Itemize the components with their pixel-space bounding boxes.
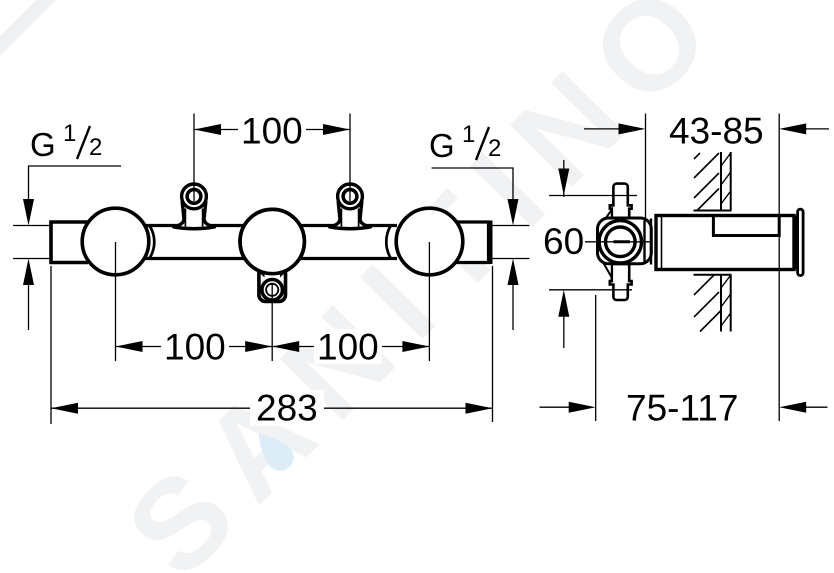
wall upper bbox=[694, 152, 732, 211]
mounting plate bbox=[643, 221, 645, 264]
inner sleeve step bbox=[713, 216, 779, 236]
centerline circle1 down bbox=[115, 242, 117, 361]
G1/2 leader left bbox=[29, 166, 122, 199]
svg-text:43-85: 43-85 bbox=[669, 111, 764, 152]
hatch between wall lines bbox=[721, 153, 731, 204]
hatch 45deg bbox=[694, 153, 719, 211]
svg-text:2: 2 bbox=[488, 135, 501, 162]
svg-text:1: 1 bbox=[462, 121, 475, 148]
centerline bottom ear down bbox=[271, 284, 273, 361]
centerline ear2 up bbox=[349, 114, 351, 202]
283 extension lines bbox=[50, 266, 52, 424]
svg-text:1: 1 bbox=[63, 120, 76, 147]
ring inner bbox=[606, 227, 636, 257]
ring outer bbox=[599, 221, 641, 263]
end flange bbox=[798, 209, 804, 275]
G1/2 left dim arrows bbox=[23, 199, 34, 285]
centerline horizontal bbox=[585, 241, 650, 243]
wings bbox=[605, 210, 612, 221]
dim 75-117 bbox=[540, 295, 828, 429]
svg-text:283: 283 bbox=[256, 388, 318, 429]
wall lower bbox=[694, 275, 732, 332]
right coupling rect bbox=[455, 221, 490, 265]
svg-text:2: 2 bbox=[89, 134, 102, 161]
60 extension over arms bbox=[549, 195, 637, 197]
bottom ear under circle 2 bbox=[258, 271, 288, 302]
body tube bar bbox=[85, 226, 489, 259]
svg-text:100: 100 bbox=[317, 327, 379, 368]
dimension 100 bottom left bbox=[116, 327, 273, 368]
svg-text:SANITINO: SANITINO bbox=[100, 0, 751, 573]
socket arc left of circle 3 bbox=[386, 226, 391, 259]
top ear 2 bbox=[330, 184, 371, 229]
top ear 1 bbox=[174, 184, 215, 229]
watermark blue drop bbox=[259, 434, 294, 471]
center dash bbox=[614, 240, 631, 243]
cylinder end heavy line bbox=[794, 216, 798, 270]
valve circle 1 bbox=[82, 208, 149, 275]
valve circle 3 bbox=[396, 208, 463, 275]
G1/2 label right bbox=[429, 121, 501, 164]
G1/2 right dim arrows bbox=[508, 199, 519, 285]
body rounded square bbox=[598, 218, 652, 264]
bottom arm bbox=[610, 264, 632, 300]
watermark SANITINO bbox=[100, 0, 751, 573]
dimension 100 bottom right bbox=[272, 327, 429, 368]
centerline ear1 up bbox=[193, 114, 195, 202]
G1/2 right extension lines bbox=[492, 225, 530, 227]
valve circle 2 redraw over ear top bbox=[240, 209, 304, 273]
left coupling rect bbox=[51, 222, 88, 263]
svg-text:100: 100 bbox=[164, 327, 226, 368]
svg-text:G: G bbox=[30, 126, 56, 163]
svg-text:60: 60 bbox=[543, 221, 584, 262]
dim 43-85 bbox=[584, 111, 829, 219]
long extension line right bbox=[778, 114, 780, 422]
svg-text:100: 100 bbox=[241, 111, 303, 152]
top arm bbox=[610, 184, 632, 220]
watermark corner band bbox=[0, 0, 58, 58]
G1/2 left extension lines bbox=[13, 225, 50, 227]
svg-text:75-117: 75-117 bbox=[626, 388, 738, 429]
G1/2 label left bbox=[30, 120, 102, 163]
valve circle 2 bbox=[240, 209, 304, 273]
dimension 283 bbox=[51, 388, 493, 429]
dimension 100 top bbox=[194, 111, 350, 152]
side valve body bbox=[549, 184, 651, 300]
svg-text:G: G bbox=[429, 127, 455, 164]
cylinder (wall-mount tube) bbox=[656, 209, 803, 275]
socket arc right of circle 1 bbox=[149, 226, 154, 259]
G1/2 leader right bbox=[432, 168, 513, 199]
centerline circle3 down bbox=[428, 242, 430, 361]
dim 60 bbox=[543, 160, 584, 348]
